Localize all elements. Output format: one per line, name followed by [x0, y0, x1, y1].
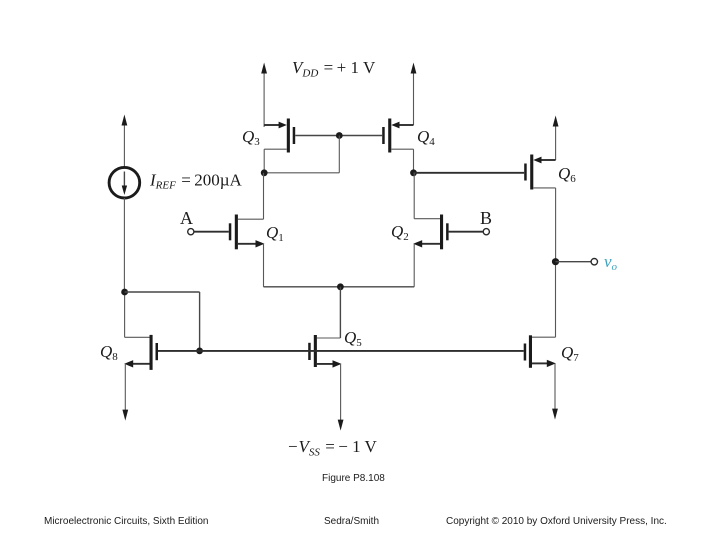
- svg-text:VDD = + 1 V: VDD = + 1 V: [292, 58, 376, 80]
- node Q3 drain: [261, 169, 268, 176]
- wire tail to Q5 drain: [339, 287, 341, 338]
- svg-text:B: B: [480, 208, 492, 228]
- wire tail node line: [264, 286, 415, 288]
- node gate bus left: [196, 348, 203, 355]
- node output: [552, 258, 559, 265]
- terminal A: [188, 229, 229, 235]
- wire Q8 gate: [158, 350, 200, 352]
- wire output: [556, 261, 592, 263]
- wire mirror loop vertical: [199, 292, 201, 351]
- wire Q4 source bend: [398, 124, 414, 126]
- wire diode connection horizontal: [264, 172, 339, 174]
- wire Q6 source bend: [540, 159, 556, 161]
- svg-text:Q1: Q1: [266, 223, 284, 244]
- svg-text:Sedra/Smith: Sedra/Smith: [324, 516, 379, 527]
- terminal B: [449, 229, 490, 235]
- wire mirror loop horizontal: [125, 291, 200, 293]
- wire Q3 source bend: [264, 124, 280, 126]
- transistor Q3: [264, 119, 295, 173]
- svg-text:IREF = 200µA: IREF = 200µA: [149, 171, 243, 192]
- transistor Q8: [122, 292, 158, 421]
- svg-text:Figure P8.108: Figure P8.108: [322, 473, 385, 484]
- wire diode connection vertical: [338, 136, 340, 173]
- svg-text:−VSS = − 1 V: −VSS = − 1 V: [287, 437, 378, 459]
- svg-text:Q8: Q8: [100, 342, 118, 363]
- wire Q4 drain to Q6 gate: [414, 172, 525, 174]
- VDD rail arrow left: [261, 63, 267, 128]
- VDD rail arrow right: [411, 63, 417, 126]
- svg-text:Q5: Q5: [344, 328, 362, 349]
- svg-text:Q6: Q6: [558, 164, 576, 185]
- node gate Q3Q4: [336, 132, 343, 139]
- current source IREF: [109, 115, 140, 293]
- terminal vo: [591, 259, 597, 265]
- transistor Q4: [382, 119, 413, 173]
- transistor Q1: [229, 173, 265, 287]
- svg-text:Copyright © 2010 by Oxford Uni: Copyright © 2010 by Oxford University Pr…: [446, 516, 667, 527]
- svg-text:Q3: Q3: [242, 127, 260, 148]
- wire gate bus Q8-Q5-Q7: [200, 350, 524, 352]
- node tail: [337, 283, 344, 290]
- node IREF to mirror: [121, 289, 128, 296]
- transistor Q6: [524, 155, 555, 262]
- svg-text:Microelectronic Circuits, Sixt: Microelectronic Circuits, Sixth Edition: [44, 516, 209, 527]
- svg-text:A: A: [180, 208, 193, 228]
- transistor Q5: [308, 335, 343, 431]
- node Q4 drain: [410, 169, 417, 176]
- transistor Q7: [524, 262, 558, 420]
- svg-text:Q4: Q4: [417, 127, 435, 148]
- VDD rail arrow Q6: [553, 116, 559, 161]
- svg-text:Q2: Q2: [391, 222, 409, 243]
- transistor Q2: [413, 173, 448, 287]
- svg-text:vo: vo: [604, 252, 618, 273]
- wire gate bus Q3-Q4: [295, 135, 382, 137]
- svg-text:Q7: Q7: [561, 343, 579, 364]
